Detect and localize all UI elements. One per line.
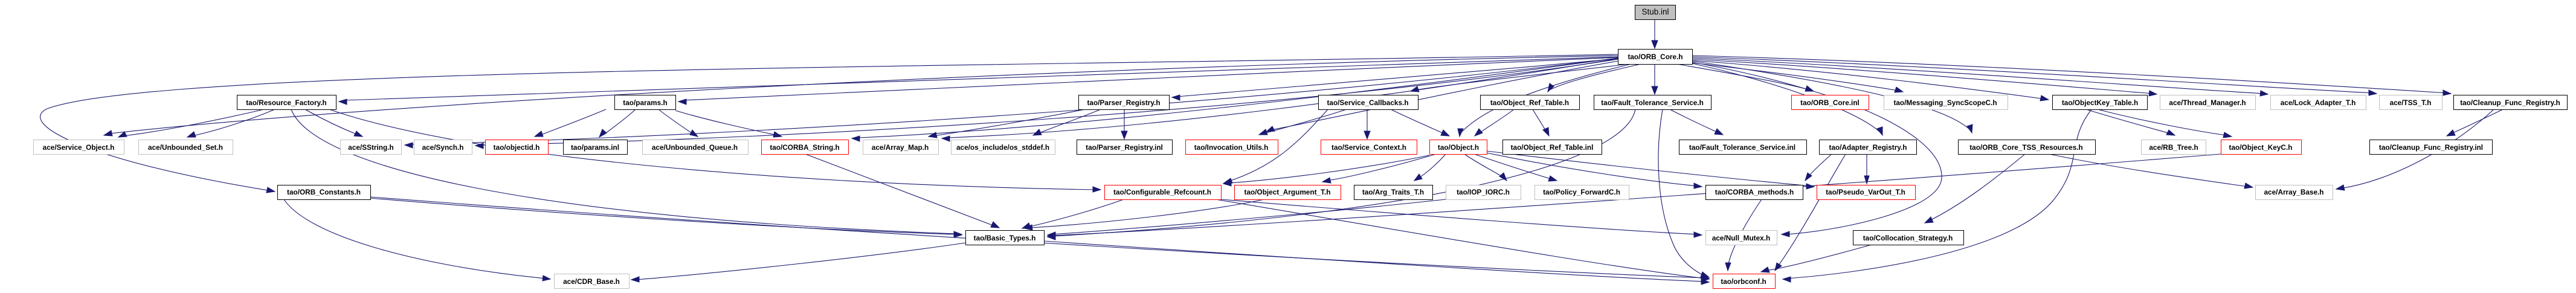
- edge ORB_Core->Thread_Manager: [1692, 59, 2157, 96]
- node ace/os_include/os_stddef.h: [952, 140, 1055, 155]
- node tao/Parser_Registry.inl: [1077, 140, 1173, 155]
- edge ORB_Core->Adapter_Registry: [1692, 63, 1882, 135]
- edge ORB_Core->Resource_Factory: [339, 57, 1618, 105]
- svg-text:tao/Fault_Tolerance_Service.h: tao/Fault_Tolerance_Service.h: [1601, 98, 1704, 107]
- node tao/Collocation_Strategy.h: [1853, 231, 1964, 245]
- edge Object->Object_Argument_T: [1322, 154, 1436, 183]
- node tao/Basic_Types.h: [966, 231, 1045, 245]
- edge Object->CORBA_methods: [1487, 153, 1702, 188]
- edge params->params.inl: [599, 109, 636, 137]
- svg-text:tao/Service_Callbacks.h: tao/Service_Callbacks.h: [1327, 98, 1408, 107]
- node ace/Array_Map.h: [863, 140, 939, 155]
- svg-text:tao/CORBA_String.h: tao/CORBA_String.h: [770, 143, 839, 152]
- svg-text:ace/Array_Base.h: ace/Array_Base.h: [2264, 188, 2323, 196]
- edge ORB_Core_TSS->Array_Base: [2049, 154, 2253, 188]
- svg-text:tao/Messaging_SyncScopeC.h: tao/Messaging_SyncScopeC.h: [1893, 98, 1997, 107]
- edge ORB_Core->Null_Mutex(arc): [1692, 62, 1942, 237]
- svg-text:ace/Array_Map.h: ace/Array_Map.h: [872, 143, 929, 152]
- edge Object->IOP_IORC: [1464, 154, 1507, 181]
- svg-text:tao/Cleanup_Func_Registry.h: tao/Cleanup_Func_Registry.h: [2460, 98, 2560, 107]
- node tao/Service_Callbacks.h: [1319, 95, 1418, 110]
- svg-text:tao/Policy_ForwardC.h: tao/Policy_ForwardC.h: [1543, 188, 1620, 196]
- edge Resource_Factory->SString: [305, 109, 362, 137]
- node tao/CORBA_String.h: [762, 140, 849, 155]
- edge ORB_Core->Parser_Registry: [1172, 59, 1618, 100]
- node tao/CORBA_methods.h: [1706, 185, 1803, 200]
- edge ORB_Core->Lock_Adapter_T: [1692, 58, 2268, 96]
- svg-text:tao/Object_Argument_T.h: tao/Object_Argument_T.h: [1245, 188, 1331, 196]
- node tao/Resource_Factory.h: [237, 95, 336, 110]
- node ace/Null_Mutex.h: [1706, 231, 1777, 245]
- svg-text:tao/Resource_Factory.h: tao/Resource_Factory.h: [246, 98, 327, 107]
- svg-text:ace/Null_Mutex.h: ace/Null_Mutex.h: [1712, 234, 1770, 242]
- edge CORBA_methods->orbconf: [1725, 199, 1762, 271]
- node ace/Thread_Manager.h: [2160, 95, 2256, 110]
- node tao/Pseudo_VarOut_T.h: [1817, 185, 1916, 200]
- svg-text:ace/Unbounded_Queue.h: ace/Unbounded_Queue.h: [652, 143, 738, 152]
- node tao/Object_Ref_Table.h: [1481, 95, 1580, 110]
- edge Service_Callbacks->Configurable_Refcount(curve): [1224, 109, 1328, 183]
- edge ObjectKey_Table->RB_Tree: [2086, 109, 2175, 135]
- node tao/Object_Argument_T.h: [1235, 185, 1341, 200]
- svg-text:ace/os_include/os_stddef.h: ace/os_include/os_stddef.h: [956, 143, 1049, 152]
- node tao/Invocation_Utils.h: [1186, 140, 1278, 155]
- svg-text:tao/Parser_Registry.h: tao/Parser_Registry.h: [1087, 98, 1160, 107]
- svg-text:tao/Adapter_Registry.h: tao/Adapter_Registry.h: [1829, 143, 1907, 152]
- edge ORB_Core->Array_Map(long): [942, 59, 1618, 141]
- svg-text:Stub.inl: Stub.inl: [1641, 7, 1669, 16]
- svg-text:tao/Basic_Types.h: tao/Basic_Types.h: [974, 234, 1036, 242]
- svg-text:ace/Thread_Manager.h: ace/Thread_Manager.h: [2169, 98, 2246, 107]
- svg-text:tao/CORBA_methods.h: tao/CORBA_methods.h: [1715, 188, 1794, 196]
- svg-text:tao/Arg_Traits_T.h: tao/Arg_Traits_T.h: [1362, 188, 1424, 196]
- edge ORB_Core->params: [678, 57, 1618, 105]
- node tao/IOP_IORC.h: [1446, 185, 1521, 200]
- edge Resource_Factory->Service_Object: [118, 109, 264, 137]
- edge ORB_Core->SString(long): [405, 58, 1618, 148]
- node tao/Messaging_SyncScopeC.h: [1884, 95, 2008, 110]
- edge params->objectid: [535, 109, 606, 137]
- svg-text:ace/Unbounded_Set.h: ace/Unbounded_Set.h: [148, 143, 223, 152]
- edge ORB_Core->Object: [1458, 64, 1631, 137]
- svg-text:ace/Service_Object.h: ace/Service_Object.h: [43, 143, 115, 152]
- edge IOP->Basic_Types: [1048, 199, 1446, 237]
- svg-text:ace/CDR_Base.h: ace/CDR_Base.h: [563, 277, 620, 286]
- edge Service_Callbacks->Object: [1391, 109, 1449, 136]
- edge ORB_Core_TSS->Collocation: [1925, 154, 2025, 223]
- edge ORB_Core->CORBA_String(long): [852, 58, 1618, 141]
- node tao/Cleanup_Func_Registry.h: [2454, 95, 2568, 110]
- edge ORB_Core->Invocation_Utils: [1266, 61, 1618, 132]
- edge Collocation->orbconf: [1761, 245, 1872, 272]
- svg-text:ace/TSS_T.h: ace/TSS_T.h: [2390, 98, 2432, 107]
- svg-text:tao/Configurable_Refcount.h: tao/Configurable_Refcount.h: [1113, 188, 1211, 196]
- edge ORB_Constants->orbconf(long): [370, 197, 1709, 281]
- svg-text:ace/SString.h: ace/SString.h: [348, 143, 393, 152]
- edge ObjectKey_Table->orbconf(arc): [1783, 109, 2091, 282]
- svg-text:tao/Collocation_Strategy.h: tao/Collocation_Strategy.h: [1863, 234, 1953, 242]
- svg-text:tao/Pseudo_VarOut_T.h: tao/Pseudo_VarOut_T.h: [1826, 188, 1905, 196]
- node ace/Synch.h: [414, 140, 472, 155]
- svg-text:tao/Fault_Tolerance_Service.in: tao/Fault_Tolerance_Service.inl: [1689, 143, 1795, 152]
- edge Resource_Factory->Configurable_Refcount(long): [329, 109, 1101, 192]
- node ace/Unbounded_Queue.h: [643, 140, 749, 155]
- node tao/ORB_Core_TSS_Resources.h: [1959, 140, 2096, 155]
- edge params->Unbounded_Queue: [658, 109, 698, 137]
- node tao/Service_Context.h: [1321, 140, 1417, 155]
- svg-text:tao/ORB_Core_TSS_Resources.h: tao/ORB_Core_TSS_Resources.h: [1969, 143, 2083, 152]
- edge FT->Basic_Types(long): [1048, 109, 1635, 240]
- edge FT->FT.inl: [1670, 109, 1723, 135]
- edge Object->Configurable_Refcount: [1223, 155, 1429, 186]
- svg-text:tao/params.inl: tao/params.inl: [571, 143, 619, 152]
- svg-text:tao/params.h: tao/params.h: [623, 98, 667, 107]
- edge ORB_Core->Synch(long): [475, 59, 1618, 149]
- edge ORB_Core->TSS_T: [1692, 57, 2377, 95]
- svg-text:ace/Synch.h: ace/Synch.h: [422, 143, 464, 152]
- edge CORBA_String->Basic_Types: [805, 154, 999, 228]
- node ace/Lock_Adapter_T.h: [2271, 95, 2366, 110]
- edge Basic_Types->orbconf: [1044, 241, 1709, 285]
- svg-text:tao/ORB_Constants.h: tao/ORB_Constants.h: [287, 188, 361, 196]
- edge Adapter_Registry->orbconf: [1775, 154, 1846, 271]
- svg-text:tao/IOP_IORC.h: tao/IOP_IORC.h: [1457, 188, 1510, 196]
- edge Object->Arg_Traits_T: [1414, 154, 1446, 181]
- node tao/params.h: [615, 95, 676, 110]
- svg-text:ace/Lock_Adapter_T.h: ace/Lock_Adapter_T.h: [2281, 98, 2356, 107]
- edge Cleanup->Array_Base: [2336, 109, 2494, 190]
- edge FT->orbconf(steep): [1658, 109, 1709, 277]
- node tao/Object_KeyC.h: [2221, 140, 2302, 155]
- edge Parser_Registry->Parser_Registry.inl: [1121, 109, 1127, 139]
- node tao/params.inl: [564, 140, 628, 155]
- edge ConfRef->Null_Mutex: [1221, 199, 1702, 237]
- node tao/ObjectKey_Table.h: [2053, 95, 2148, 110]
- svg-text:ace/RB_Tree.h: ace/RB_Tree.h: [2149, 143, 2198, 152]
- node tao/ORB_Constants.h: [278, 185, 371, 200]
- edge Cleanup->Cleanup.inl: [2447, 109, 2503, 136]
- edge Service_Callbacks->Invocation_Utils: [1259, 109, 1347, 135]
- edge ORB_Core->Service_Callbacks: [1411, 64, 1629, 92]
- node tao/Object_Ref_Table.inl: [1503, 140, 1602, 155]
- edge ORB_Core->ORB_Constants(loop): [40, 54, 1618, 193]
- edge params->CORBA_String: [675, 111, 782, 137]
- node ace/RB_Tree.h: [2142, 140, 2206, 155]
- edge ORB_Core->Service_Object(long): [104, 56, 1618, 136]
- node ace/Service_Object.h: [34, 140, 124, 155]
- edge Stub.inl->tao/ORB_Core.h: [1652, 19, 1658, 48]
- node tao/objectid.h: [486, 140, 549, 155]
- edge Service_Callbacks->Service_Context: [1364, 109, 1370, 139]
- node tao/Fault_Tolerance_Service.inl: [1679, 140, 1807, 155]
- edge Adapter_Registry->Pseudo_VarOut_T: [1864, 154, 1869, 184]
- node tao/Arg_Traits_T.h: [1354, 185, 1433, 200]
- node ace/TSS_T.h: [2380, 95, 2442, 110]
- node tao/Fault_Tolerance_Service.h: [1594, 95, 1711, 110]
- edge ORB_Core->Cleanup_Func_Registry: [1692, 56, 2451, 95]
- edge Resource_Factory->Unbounded_Set: [187, 109, 275, 137]
- edge ORB_Constants->Basic_Types: [370, 198, 962, 237]
- svg-text:tao/Object_Ref_Table.h: tao/Object_Ref_Table.h: [1490, 98, 1569, 107]
- edge Basic_Types->CDR_Base: [631, 243, 965, 282]
- edge ORB_Core->Fault_Tolerance_Service: [1652, 64, 1658, 94]
- edge Parser_Registry->Array_Map: [929, 109, 1085, 138]
- edge Object_Ref_Table->Object: [1475, 109, 1514, 136]
- edge ORB_Core->Object_Ref_Table: [1548, 64, 1641, 92]
- edge Parser_Registry->os_stddef: [1033, 109, 1101, 135]
- node tao/Policy_ForwardC.h: [1535, 185, 1629, 200]
- edge ORB_Core->ObjectKey_Table: [1692, 60, 2049, 101]
- edge Object->Policy_ForwardC: [1474, 154, 1557, 181]
- node tao/Object.h: [1430, 140, 1487, 155]
- svg-text:tao/Object_Ref_Table.inl: tao/Object_Ref_Table.inl: [1511, 143, 1594, 152]
- edge ORB_Core->ORB_Core.inl: [1677, 64, 1814, 91]
- edge ObjectKey_Table->Object_KeyC: [2098, 109, 2232, 138]
- edge ORB_Core->Messaging_SyncScopeC: [1692, 63, 1903, 92]
- node tao/Cleanup_Func_Registry.inl: [2370, 140, 2493, 155]
- node ace/CDR_Base.h: [555, 274, 630, 289]
- node ace/SString.h: [341, 140, 402, 155]
- svg-text:tao/Parser_Registry.inl: tao/Parser_Registry.inl: [1086, 143, 1163, 152]
- edge Object->Pseudo_VarOut_T: [1487, 151, 1814, 189]
- svg-text:tao/Object.h: tao/Object.h: [1438, 143, 1479, 152]
- node ace/Unbounded_Set.h: [139, 140, 233, 155]
- edge ORB_Core->ORB_Core_TSS_Resources: [1692, 61, 1972, 133]
- svg-text:tao/Cleanup_Func_Registry.inl: tao/Cleanup_Func_Registry.inl: [2379, 143, 2483, 152]
- edge Adapter_Registry->CORBA_methods: [1805, 154, 1832, 181]
- edge ConfRef->Basic_Types: [1022, 199, 1124, 228]
- node tao/orbconf.h: [1713, 274, 1776, 289]
- edge ConfRef->orbconf: [1216, 199, 1709, 282]
- svg-text:tao/Service_Context.h: tao/Service_Context.h: [1331, 143, 1406, 152]
- svg-text:tao/Invocation_Utils.h: tao/Invocation_Utils.h: [1194, 143, 1269, 152]
- edge ObjectKeyC->Basic_Types(long): [1048, 154, 2221, 239]
- node tao/ORB_Core.inl: [1792, 95, 1869, 110]
- node Stub.inl: [1635, 5, 1676, 20]
- edge ORB_Constants->CDR_Base(curve): [284, 199, 550, 281]
- svg-text:tao/orbconf.h: tao/orbconf.h: [1721, 277, 1766, 286]
- node tao/Parser_Registry.h: [1079, 95, 1170, 110]
- node tao/ORB_Core.h: [1618, 50, 1693, 65]
- edge ObjArg->Basic_Types: [1025, 199, 1264, 230]
- svg-text:tao/ObjectKey_Table.h: tao/ObjectKey_Table.h: [2062, 98, 2138, 107]
- node tao/Configurable_Refcount.h: [1105, 185, 1222, 200]
- svg-text:tao/ORB_Core.h: tao/ORB_Core.h: [1628, 53, 1682, 61]
- svg-text:tao/objectid.h: tao/objectid.h: [494, 143, 540, 152]
- node tao/Adapter_Registry.h: [1820, 140, 1917, 155]
- svg-text:tao/ORB_Core.inl: tao/ORB_Core.inl: [1800, 98, 1860, 107]
- edge Object_Ref_Table->Object_Ref_Table.inl: [1533, 109, 1549, 136]
- svg-text:tao/Object_KeyC.h: tao/Object_KeyC.h: [2229, 143, 2293, 152]
- edge Resource_Factory->Basic_Types(curve): [291, 109, 962, 237]
- node ace/Array_Base.h: [2256, 185, 2333, 200]
